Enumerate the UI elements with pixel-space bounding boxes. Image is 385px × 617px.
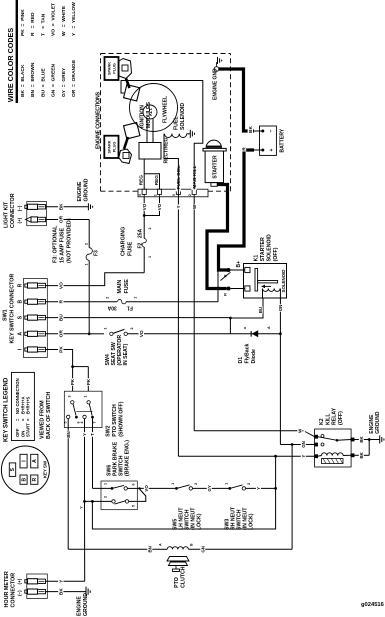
svg-text:GY: GY [207, 485, 212, 491]
spark plug 2 lead to module 2 [124, 137, 128, 149]
SW6 pole 1 out [127, 487, 137, 489]
wire BN from SW2 [67, 419, 69, 550]
light kit bracket [27, 201, 47, 225]
wire fuel solenoid [164, 134, 178, 189]
svg-text:3: 3 [68, 396, 72, 398]
svg-text:KILL: KILL [325, 413, 331, 425]
svg-text:VO: VO [144, 485, 149, 492]
SW2 NC contact pole 1 [67, 415, 70, 418]
svg-text:2: 2 [106, 297, 110, 299]
svg-text:BU = BLUE: BU = BLUE [40, 68, 46, 97]
starter terminal tab [211, 183, 217, 187]
K2 blade from W pin [305, 432, 315, 437]
svg-text:Y: Y [301, 455, 306, 458]
svg-text:I: I [18, 348, 24, 350]
SW2 pole 2 blade [89, 404, 92, 416]
svg-text:a: a [243, 326, 247, 329]
K2 pin GN [315, 443, 318, 446]
svg-text:IN SEAT): IN SEAT) [123, 343, 129, 365]
svg-text:T = TAN: T = TAN [40, 13, 46, 36]
svg-text:15 AMP FUSE: 15 AMP FUSE [60, 228, 66, 263]
svg-text:BATTERY: BATTERY [280, 128, 286, 152]
svg-text:K2: K2 [319, 418, 325, 425]
K1 contact links [231, 269, 245, 271]
K1 plunger bar [255, 269, 258, 292]
wire label VO reg1 [141, 203, 146, 211]
svg-text:2: 2 [130, 328, 134, 330]
svg-text:T: T [90, 433, 95, 436]
engine gnd terminal circle [214, 67, 219, 72]
K2 box [315, 429, 352, 467]
pin label FUEL SOL. [176, 163, 181, 192]
K1 box [244, 264, 287, 299]
wire PK to SW2 pole 2 [87, 367, 89, 392]
svg-text:R = RED: R = RED [30, 12, 36, 36]
svg-text:D1: D1 [238, 357, 244, 364]
svg-text:MODULES: MODULES [146, 102, 152, 128]
key switch terminal A [31, 454, 38, 468]
svg-text:VIEWED FROM: VIEWED FROM [40, 400, 46, 439]
svg-text:BK: BK [59, 588, 65, 595]
engine connections dashed box right edge [101, 53, 231, 55]
svg-text:K1: K1 [254, 255, 260, 262]
svg-text:SOLENOID: SOLENOID [267, 234, 273, 261]
wire Y from SW3 to junction [246, 487, 276, 489]
starter cable (thick) [207, 185, 228, 289]
SW2 pole 1 blade [73, 404, 76, 416]
starter body [205, 151, 223, 183]
SW2 pole 1 common contact [71, 401, 74, 404]
key switch terminal R [31, 475, 38, 484]
svg-text:GROUND: GROUND [83, 593, 89, 616]
svg-text:1: 1 [148, 256, 152, 258]
starter collar [203, 148, 226, 151]
svg-text:4: 4 [80, 422, 84, 424]
svg-text:Y = YELLOW: Y = YELLOW [71, 2, 77, 36]
ignition module 2 [124, 123, 140, 139]
svg-text:VO: VO [139, 330, 145, 337]
svg-text:REG: REG [154, 175, 160, 186]
svg-text:BN: BN [66, 431, 71, 437]
wire VO to REG pin 2 [144, 197, 159, 216]
wire coil to ground [187, 133, 191, 135]
magneto kill rail [121, 81, 203, 190]
svg-text:CONNECTOR: CONNECTOR [10, 193, 16, 228]
key switch terminal B [20, 475, 27, 484]
svg-text:B: B [190, 543, 194, 546]
svg-text:ENGINE: ENGINE [77, 181, 83, 201]
svg-text:(SHOWN OFF): (SHOWN OFF) [119, 401, 125, 436]
svg-text:2: 2 [148, 228, 152, 230]
battery positive terminal [261, 149, 264, 152]
svg-text:BK: BK [359, 436, 364, 443]
wires alternator to rect/reg [146, 119, 148, 143]
engine connector strip [138, 189, 208, 197]
svg-text:2: 2 [194, 483, 198, 485]
svg-text:25A: 25A [138, 228, 144, 238]
svg-text:W = WHITE: W = WHITE [61, 5, 67, 36]
fuel solenoid ground symbol [189, 130, 191, 138]
svg-text:PK: PK [86, 378, 91, 385]
svg-text:KEY SWITCH CONNECTOR: KEY SWITCH CONNECTOR [10, 274, 16, 344]
svg-text:GY = GREY: GY = GREY [61, 67, 67, 97]
SW6 pole 1 blade [112, 485, 124, 488]
engine connector pin REG2 [157, 189, 161, 194]
svg-text:–: – [269, 129, 275, 132]
wire OR from key switch A [46, 333, 90, 335]
svg-text:1: 1 [84, 396, 88, 398]
ignition module 1 [124, 85, 140, 101]
wire PK branch [73, 366, 89, 368]
svg-text:R: R [32, 478, 38, 482]
svg-text:(NOT PROVIDED): (NOT PROVIDED) [67, 218, 73, 263]
K1 contact stud B+ [227, 268, 231, 272]
key switch legend box [12, 372, 35, 440]
svg-text:STARTER: STARTER [260, 237, 266, 261]
engine ground symbol (hour meter) [85, 587, 87, 597]
legend divider line [16, 0, 18, 103]
wire GN down to K2 [280, 444, 314, 446]
svg-text:Diode: Diode [251, 349, 257, 364]
svg-text:F3: OPTIONAL: F3: OPTIONAL [53, 225, 59, 263]
engine connections dashed box top edge [100, 54, 102, 192]
svg-text:B: B [18, 300, 24, 304]
svg-text:+: + [269, 148, 275, 151]
svg-text:CLUTCH: CLUTCH [181, 566, 187, 588]
SW2 pole 2 common contact [87, 401, 90, 404]
flywheel circle [130, 84, 178, 132]
svg-text:2: 2 [188, 194, 192, 196]
svg-text:GN: GN [201, 546, 206, 553]
svg-text:R: R [223, 293, 228, 296]
light kit pin (-) BK [25, 205, 28, 208]
engine connections dashed connector line upper [101, 190, 139, 192]
wire W mag kill bus [193, 197, 195, 431]
svg-text:(OFF): (OFF) [338, 411, 344, 425]
SW2 box [64, 391, 102, 427]
svg-text:g024516: g024516 [361, 602, 385, 608]
svg-text:B: B [22, 478, 28, 482]
light kit pin (+) OR [26, 217, 32, 222]
svg-text:PTO: PTO [174, 577, 180, 588]
svg-text:GN = GREEN: GN = GREEN [51, 64, 57, 97]
svg-text:1: 1 [104, 328, 108, 330]
spark plug 2 body [119, 149, 132, 164]
svg-text:F2: F2 [138, 242, 144, 248]
pin label MAG KILL [191, 164, 196, 190]
svg-text:BK: BK [359, 451, 364, 458]
svg-text:1: 1 [134, 297, 138, 299]
fuse F2 symbol [142, 239, 146, 248]
engine ground symbol (light kit) [87, 203, 89, 210]
diode D1 branch wire [229, 318, 231, 334]
svg-text:(+): (+) [17, 578, 22, 584]
svg-text:4: 4 [138, 194, 142, 196]
svg-text:KEY SWITCH LEGEND: KEY SWITCH LEGEND [4, 377, 10, 442]
wire GN from K1 coil [279, 298, 281, 445]
svg-text:GROUND: GROUND [84, 178, 90, 201]
svg-text:3: 3 [172, 194, 176, 196]
wire Y from hour meter [46, 580, 85, 582]
svg-text:IGNITION: IGNITION [140, 105, 146, 128]
svg-text:WIRE COLOR CODES: WIRE COLOR CODES [6, 28, 15, 102]
svg-text:B+: B+ [236, 261, 242, 268]
wire T from SW2 [92, 417, 94, 488]
wire OR continues to seat switch [89, 333, 104, 335]
svg-text:1: 1 [153, 194, 157, 196]
svg-text:OR = ORANGE: OR = ORANGE [71, 59, 77, 97]
wire label R battery [241, 147, 246, 152]
svg-text:SPARK: SPARK [108, 140, 112, 153]
K2 bottom pin 1 [351, 438, 354, 441]
svg-text:RELAY: RELAY [332, 407, 338, 425]
svg-text:GN: GN [278, 305, 283, 312]
spark plug 2 label box [104, 136, 118, 158]
svg-text:ENGINE GND: ENGINE GND [213, 68, 219, 100]
svg-text:PTO SWITCH: PTO SWITCH [112, 404, 118, 437]
svg-text:PLUG: PLUG [113, 142, 117, 153]
wire Y loop to neutral switches return [92, 456, 275, 529]
svg-text:GROUND: GROUND [375, 411, 381, 434]
SW4 blade [113, 329, 124, 333]
wire BU from key switch S [46, 317, 231, 319]
K2 bottom pin 2 [351, 454, 354, 457]
battery cable R positive [254, 149, 262, 151]
svg-text:2: 2 [84, 243, 88, 245]
svg-text:I: I [22, 460, 28, 462]
wire T into SW6 pin 1 [93, 487, 113, 489]
svg-text:BACK OF SWITCH: BACK OF SWITCH [46, 392, 52, 439]
svg-text:CHARGING: CHARGING [121, 227, 127, 256]
svg-text:(BRAKE ENG.): (BRAKE ENG.) [125, 440, 131, 476]
svg-text:30A: 30A [107, 305, 117, 311]
svg-text:F3: F3 [94, 250, 100, 256]
svg-text:B+R+I+S: B+R+I+S [26, 396, 31, 414]
svg-text:LOCK): LOCK) [197, 513, 203, 530]
wires BK from K2 to ground [354, 439, 380, 441]
SW2 NC contact pole 2 [83, 415, 86, 418]
svg-text:PK = PINK: PK = PINK [20, 9, 26, 36]
svg-text:Y: Y [256, 487, 261, 490]
svg-text:2: 2 [104, 496, 108, 498]
PTO clutch plates [167, 557, 189, 562]
svg-text:BK = BLACK: BK = BLACK [20, 64, 26, 97]
wire PK from key switch I [46, 350, 73, 367]
K1 contact pin 2 [245, 286, 250, 291]
svg-text:(+): (+) [17, 217, 22, 223]
svg-text:HOUR METER: HOUR METER [4, 571, 10, 607]
svg-text:BN = BROWN: BN = BROWN [30, 62, 36, 97]
wire PK to SW2 pole 1 [72, 367, 74, 392]
svg-text:S: S [18, 315, 24, 319]
svg-text:BU: BU [258, 307, 263, 313]
svg-text:1: 1 [104, 483, 108, 485]
engine connections dashed box bottom edge [230, 54, 232, 192]
wire GY between neutral switches [193, 487, 230, 489]
engine connections dashed connector line lower [208, 190, 231, 192]
wire BU to K1 coil [230, 298, 263, 318]
svg-text:SOLENOID: SOLENOID [281, 270, 286, 293]
battery cable BK negative [219, 69, 254, 131]
battery negative terminal [261, 130, 264, 133]
svg-text:MAG KILL: MAG KILL [192, 165, 198, 188]
svg-text:FUSE: FUSE [124, 279, 130, 294]
RECT/REG box [139, 143, 161, 160]
wire Y into SW6 pin 2 [85, 500, 113, 502]
svg-text:R: R [18, 283, 24, 287]
hour meter pin (+) Y [25, 580, 28, 583]
wire label Y [58, 579, 63, 584]
svg-text:(OFF): (OFF) [273, 247, 279, 261]
svg-text:FLYWHEEL: FLYWHEEL [163, 96, 169, 123]
wire Y down to K2 [178, 455, 314, 457]
svg-text:=: = [26, 418, 31, 421]
K1 blade (open) [221, 272, 231, 280]
wire VO out of SW6 [137, 487, 176, 489]
engine ground symbol (K2) [379, 436, 381, 444]
spark plug 1 lead to module 1 [126, 79, 130, 89]
wire VO from seat switch to D1 node [127, 333, 230, 335]
wire W down to K2 [194, 430, 303, 432]
svg-text:STARTER: STARTER [212, 155, 218, 179]
svg-text:FUEL: FUEL [174, 116, 180, 130]
svg-text:VO: VO [142, 203, 147, 210]
svg-text:MAIN: MAIN [117, 280, 123, 294]
svg-text:LIGHT KIT: LIGHT KIT [4, 201, 10, 228]
svg-text:5: 5 [132, 505, 136, 507]
PTO clutch coil [167, 547, 172, 550]
svg-text:2: 2 [247, 483, 251, 485]
fuse F1 symbol on R wire [117, 299, 126, 305]
svg-text:VO: VO [157, 203, 162, 210]
svg-text:PK: PK [59, 346, 65, 353]
wire label BK battery [248, 126, 253, 134]
K2 pin Y [315, 455, 318, 458]
junction OR/F3/SW4 node [88, 332, 91, 335]
svg-text:ENGINE: ENGINE [77, 596, 83, 616]
K2 internal blade [318, 437, 337, 441]
svg-text:A: A [267, 326, 271, 329]
svg-text:6: 6 [132, 484, 136, 486]
svg-text:FUSE: FUSE [128, 241, 134, 256]
svg-text:ENGINE CONNECTIONS: ENGINE CONNECTIONS [96, 91, 102, 149]
svg-text:PK: PK [70, 378, 75, 385]
spark plug 1 label box [105, 57, 119, 80]
K2 internal contacts [321, 435, 324, 438]
svg-text:OR: OR [59, 215, 65, 223]
K1 plunger stem [258, 281, 278, 283]
SW2 gang link [76, 410, 92, 412]
svg-text:FUEL SOL.: FUEL SOL. [176, 165, 182, 190]
svg-text:SOLENOID: SOLENOID [180, 103, 186, 130]
svg-text:START: START [26, 423, 31, 437]
K1 contact pin 1 [245, 267, 250, 272]
wire label BK [58, 588, 63, 596]
key switch terminal I [20, 454, 27, 468]
wire REG1 into rectifier [143, 159, 145, 189]
svg-text:5: 5 [64, 422, 68, 424]
svg-text:Y: Y [79, 506, 84, 509]
wire BK from light kit to ground [46, 206, 89, 208]
wire VO from key switch R [46, 273, 145, 286]
K1 contact stud starter [227, 287, 231, 291]
svg-text:FlyBack: FlyBack [245, 343, 251, 363]
spark plug 1 body [119, 59, 132, 79]
svg-text:GN: GN [301, 441, 306, 448]
svg-text:(–): (–) [17, 590, 22, 596]
junction VO regulator wires [143, 214, 146, 217]
SW6 pole 2 blade [115, 501, 126, 504]
wire R from F1 to B+ stud [217, 271, 219, 302]
wire OR from light kit [46, 219, 90, 221]
svg-text:1: 1 [171, 483, 175, 485]
engine gnd symbol [217, 63, 218, 67]
SW6 box [101, 481, 137, 510]
svg-text:BK: BK [59, 203, 65, 210]
svg-text:A: A [18, 332, 24, 336]
svg-text:PLUG: PLUG [113, 63, 117, 74]
svg-text:Y: Y [176, 205, 181, 208]
wire VO to REG pin 1 [143, 197, 145, 216]
wire REG2 splitter [144, 174, 159, 190]
svg-text:CONNECTOR: CONNECTOR [11, 573, 17, 608]
K2 coil [322, 453, 327, 456]
svg-text:KEY SW: KEY SW [43, 460, 48, 478]
svg-text:BK: BK [248, 126, 254, 133]
svg-text:VO: VO [59, 282, 65, 289]
svg-text:W: W [192, 204, 197, 209]
svg-text:F1: F1 [127, 305, 133, 311]
svg-text:A: A [32, 459, 38, 463]
svg-text:SW2: SW2 [106, 425, 112, 436]
fuel solenoid coil [165, 134, 172, 138]
engine connector pin REG1 [142, 189, 146, 194]
K2 pin W [315, 435, 318, 438]
wire Y fuel solenoid bus [177, 189, 179, 197]
hour meter connector bracket [27, 574, 48, 599]
svg-text:7: 7 [93, 422, 97, 424]
SW5 contacts and blade [175, 487, 178, 490]
svg-text:1: 1 [84, 264, 88, 266]
svg-text:REG: REG [139, 175, 145, 186]
K1 motion arrow [263, 285, 271, 287]
wire OR horizontal run to F3 and key switch A [88, 220, 90, 248]
wire GN from PTO clutch to K2 junction [200, 546, 205, 553]
svg-text:BU: BU [59, 314, 65, 321]
wire R from key switch B [46, 301, 219, 303]
alternator circle [143, 105, 157, 119]
wire Y from SW2 [84, 419, 86, 502]
wire VO regulator to charging fuse [143, 247, 145, 273]
svg-text:LOCK): LOCK) [249, 513, 255, 530]
wire label VO reg2 [157, 203, 162, 211]
svg-text:(–): (–) [17, 205, 22, 211]
hour meter pin (-) BK [25, 590, 28, 593]
svg-text:OR: OR [59, 330, 65, 338]
svg-text:SW1: SW1 [3, 309, 9, 321]
wire BN down to PTO clutch [68, 548, 160, 550]
starter dome [206, 140, 221, 148]
K1 coil [263, 289, 269, 292]
svg-text:R: R [241, 147, 247, 151]
svg-text:R: R [59, 299, 65, 303]
SW1 connector bracket [24, 279, 48, 358]
svg-text:VO = VIOLET: VO = VIOLET [51, 3, 57, 36]
svg-text:SPARK: SPARK [108, 62, 112, 75]
svg-text:A: A [159, 543, 163, 546]
fuse F3 symbol [86, 248, 92, 261]
engine connector pin MAGKILL [192, 189, 196, 194]
